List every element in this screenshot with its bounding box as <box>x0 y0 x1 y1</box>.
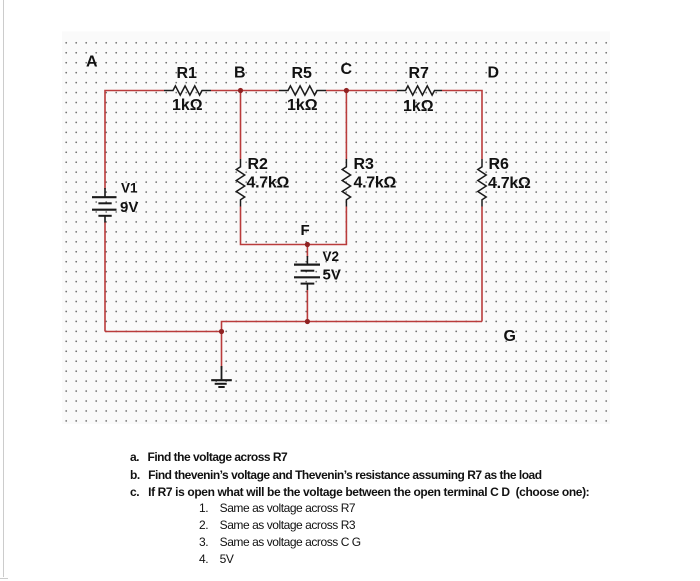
svg-text:1kΩ: 1kΩ <box>172 97 203 114</box>
svg-text:R3: R3 <box>354 156 375 173</box>
resistor R7 <box>397 86 442 95</box>
resistor R5 <box>279 86 326 95</box>
svg-text:R5: R5 <box>292 65 313 82</box>
svg-text:V1: V1 <box>121 181 138 196</box>
svg-text:4.7kΩ: 4.7kΩ <box>247 175 290 192</box>
svg-text:1kΩ: 1kΩ <box>287 97 318 114</box>
svg-text:4.7kΩ: 4.7kΩ <box>488 175 531 192</box>
svg-text:G: G <box>504 328 516 345</box>
wire: node F down to V2 <box>306 245 308 258</box>
wire: bottom left rail <box>105 331 222 333</box>
wire: below V1 to bottom left corner <box>104 222 106 332</box>
junction node B <box>238 88 243 93</box>
svg-text:V2: V2 <box>323 249 340 264</box>
wire: R2 bottom to mid rail <box>241 207 308 245</box>
svg-text:4.7kΩ: 4.7kΩ <box>354 175 397 192</box>
wire: node C to R7 left lead <box>346 90 397 92</box>
svg-text:A: A <box>86 54 98 71</box>
wire: mid rail F to R3 column <box>307 207 346 245</box>
svg-text:D: D <box>488 65 500 82</box>
question text <box>130 450 287 464</box>
svg-text:F: F <box>301 222 310 239</box>
wire: node B to R5 left lead <box>241 90 280 92</box>
wire: R1 right to node B <box>211 90 241 92</box>
svg-text:C: C <box>341 61 353 78</box>
svg-text:R6: R6 <box>489 156 510 173</box>
junction node F <box>305 242 310 247</box>
svg-text:9V: 9V <box>120 199 138 216</box>
wire: node B down to R2 <box>240 91 242 160</box>
resistor R3 <box>342 159 350 207</box>
wire: node A corner to R1 left lead <box>105 91 164 190</box>
wire: R5 right to node C <box>326 90 346 92</box>
svg-text:1kΩ: 1kΩ <box>403 98 434 115</box>
ground <box>211 366 232 387</box>
svg-text:B: B <box>234 65 246 82</box>
resistor R2 <box>236 159 244 207</box>
svg-text:R7: R7 <box>409 65 430 82</box>
resistor R1 <box>164 86 211 95</box>
wire: ground stem red part <box>221 332 223 369</box>
svg-text:5V: 5V <box>323 267 341 284</box>
wire: V2 bottom to bottom rail <box>306 290 308 322</box>
dotted grid background <box>62 32 610 425</box>
wire: bottom right rail <box>222 322 483 332</box>
junction V2 bottom <box>305 319 310 324</box>
junction node C <box>344 88 349 93</box>
resistor R6 <box>478 159 486 207</box>
wire: R7 right to corner D, down right side <box>442 91 482 160</box>
wire: below R6 down to bottom rail <box>481 207 483 322</box>
svg-text:R2: R2 <box>248 156 269 173</box>
page left edge line <box>3 0 4 577</box>
svg-text:R1: R1 <box>177 65 198 82</box>
battery V1 <box>92 188 117 223</box>
wire: node C down to R3 <box>345 91 347 160</box>
battery V2 <box>294 256 320 290</box>
junction ground <box>219 329 224 334</box>
